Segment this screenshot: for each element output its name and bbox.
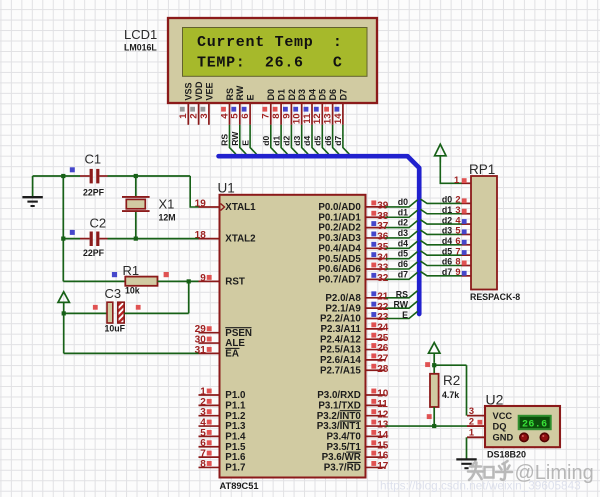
svg-text:P1.5: P1.5 [225, 442, 246, 453]
svg-text:D4: D4 [307, 89, 317, 101]
svg-text:21: 21 [377, 291, 389, 302]
svg-text:P2.4/A12: P2.4/A12 [320, 334, 361, 345]
svg-text:P1.7: P1.7 [225, 463, 246, 474]
svg-text:C2: C2 [90, 216, 107, 231]
svg-text:23: 23 [377, 312, 389, 323]
svg-text:DQ: DQ [493, 421, 507, 431]
svg-text:2: 2 [469, 416, 474, 426]
svg-text:R1: R1 [123, 263, 140, 278]
svg-text:P1.1: P1.1 [225, 400, 246, 411]
svg-text:25: 25 [377, 333, 389, 344]
svg-text:TEMP: 26.6 C: TEMP: 26.6 C [197, 54, 343, 71]
svg-text:P2.2/A10: P2.2/A10 [320, 314, 361, 325]
svg-text:d7: d7 [333, 136, 343, 146]
svg-text:RESPACK-8: RESPACK-8 [470, 292, 520, 302]
svg-text:RW: RW [394, 300, 409, 310]
svg-text:d4: d4 [398, 238, 408, 248]
svg-text:P2.7/A15: P2.7/A15 [320, 365, 361, 376]
svg-text:Current Temp :: Current Temp : [197, 34, 343, 51]
svg-text:32: 32 [377, 273, 389, 284]
svg-text:P2.6/A14: P2.6/A14 [320, 355, 361, 366]
svg-text:P0.1/AD1: P0.1/AD1 [318, 212, 361, 223]
svg-text:E: E [240, 140, 250, 146]
svg-text:28: 28 [377, 364, 389, 375]
svg-text:XTAL1: XTAL1 [225, 202, 256, 213]
svg-text:d6: d6 [398, 259, 408, 269]
svg-text:d3: d3 [292, 136, 302, 146]
svg-text:d0: d0 [398, 197, 408, 207]
svg-text:d1: d1 [271, 136, 281, 146]
svg-text:d0: d0 [261, 136, 271, 146]
svg-text:13: 13 [377, 420, 389, 431]
svg-text:P0.7/AD7: P0.7/AD7 [318, 274, 361, 285]
svg-text:27: 27 [377, 354, 389, 365]
svg-text:29: 29 [195, 324, 207, 335]
svg-text:10k: 10k [125, 285, 140, 295]
svg-text:D2: D2 [287, 89, 297, 101]
svg-text:4: 4 [200, 417, 206, 428]
svg-text:RW: RW [230, 131, 240, 146]
svg-text:P0.4/AD4: P0.4/AD4 [318, 243, 361, 254]
svg-text:38: 38 [377, 211, 389, 222]
svg-text:3: 3 [199, 113, 210, 118]
svg-text:E: E [246, 94, 256, 100]
svg-text:39: 39 [377, 201, 389, 212]
svg-text:RS: RS [225, 88, 235, 101]
svg-text:12: 12 [377, 409, 389, 420]
svg-text:P3.2/INT0: P3.2/INT0 [317, 411, 362, 422]
svg-text:P1.6: P1.6 [225, 452, 246, 463]
svg-text:12M: 12M [159, 213, 176, 223]
svg-text:34: 34 [377, 252, 389, 263]
svg-text:RS: RS [396, 289, 408, 299]
svg-text:P1.2: P1.2 [225, 411, 246, 422]
svg-text:36: 36 [377, 232, 389, 243]
svg-text:U1: U1 [218, 181, 235, 196]
svg-text:d1: d1 [398, 207, 408, 217]
svg-text:P2.1/A9: P2.1/A9 [325, 303, 361, 314]
svg-text:VEE: VEE [204, 82, 214, 100]
svg-text:24: 24 [377, 322, 389, 333]
svg-text:4.7k: 4.7k [442, 390, 459, 400]
svg-text:RP1: RP1 [469, 162, 495, 177]
svg-text:d5: d5 [313, 136, 323, 146]
svg-text:P0.5/AD5: P0.5/AD5 [318, 254, 361, 265]
svg-text:1: 1 [454, 175, 459, 185]
svg-text:d4: d4 [302, 136, 312, 146]
svg-text:P2.0/A8: P2.0/A8 [325, 293, 361, 304]
svg-text:7: 7 [200, 449, 206, 460]
svg-text:P1.0: P1.0 [225, 390, 246, 401]
svg-text:https://blog.csdn.net/weixin_3: https://blog.csdn.net/weixin_39605843 [380, 479, 581, 493]
svg-text:P2.3/A11: P2.3/A11 [320, 324, 361, 335]
svg-text:P0.6/AD6: P0.6/AD6 [318, 264, 361, 275]
svg-text:6: 6 [200, 438, 206, 449]
svg-text:LCD1: LCD1 [124, 27, 157, 42]
svg-text:37: 37 [377, 221, 389, 232]
svg-text:P3.1/TXD: P3.1/TXD [318, 400, 360, 411]
svg-text:AT89C51: AT89C51 [220, 481, 259, 491]
svg-text:17: 17 [377, 461, 389, 472]
svg-text:22PF: 22PF [83, 188, 105, 198]
svg-text:d3: d3 [398, 228, 408, 238]
svg-text:8: 8 [200, 459, 206, 470]
svg-text:VDD: VDD [194, 81, 204, 101]
svg-text:X1: X1 [159, 197, 175, 212]
svg-text:1: 1 [469, 428, 474, 438]
svg-text:P3.3/INT1: P3.3/INT1 [317, 421, 362, 432]
svg-text:14: 14 [333, 113, 344, 124]
svg-text:5: 5 [200, 428, 206, 439]
svg-text:33: 33 [377, 263, 389, 274]
svg-text:D5: D5 [318, 89, 328, 101]
svg-text:P3.5/T1: P3.5/T1 [326, 442, 361, 453]
svg-text:26: 26 [377, 343, 389, 354]
svg-text:RST: RST [225, 277, 245, 288]
svg-text:2: 2 [200, 397, 206, 408]
svg-text:D3: D3 [297, 89, 307, 101]
svg-text:C1: C1 [85, 152, 102, 167]
svg-text:D7: D7 [338, 89, 348, 101]
svg-text:R2: R2 [443, 373, 460, 388]
svg-text:RS: RS [220, 134, 230, 146]
svg-text:XTAL2: XTAL2 [225, 234, 256, 245]
svg-text:D6: D6 [328, 89, 338, 101]
svg-text:VCC: VCC [493, 411, 513, 421]
svg-text:D1: D1 [277, 89, 287, 101]
svg-text:3: 3 [200, 407, 206, 418]
svg-text:1: 1 [200, 386, 206, 397]
svg-text:d7: d7 [398, 269, 408, 279]
svg-text:15: 15 [377, 440, 389, 451]
svg-text:d6: d6 [323, 136, 333, 146]
svg-text:22: 22 [377, 302, 389, 313]
svg-text:26.6: 26.6 [522, 419, 548, 430]
svg-text:P3.4/T0: P3.4/T0 [326, 432, 361, 443]
svg-text:P3.7/RD: P3.7/RD [324, 463, 361, 474]
svg-text:30: 30 [195, 334, 207, 345]
svg-text:10uF: 10uF [105, 324, 126, 334]
svg-text:EA: EA [225, 349, 239, 360]
svg-text:P1.4: P1.4 [225, 432, 246, 443]
svg-text:DS18B20: DS18B20 [487, 450, 526, 460]
svg-text:d5: d5 [398, 249, 408, 259]
svg-text:35: 35 [377, 242, 389, 253]
svg-text:14: 14 [377, 430, 389, 441]
svg-text:D0: D0 [266, 89, 276, 101]
svg-text:3: 3 [469, 406, 474, 416]
svg-text:P3.0/RXD: P3.0/RXD [317, 390, 361, 401]
svg-text:22PF: 22PF [83, 248, 105, 258]
svg-text:P0.2/AD2: P0.2/AD2 [318, 223, 361, 234]
svg-text:9: 9 [200, 273, 206, 284]
svg-text:VSS: VSS [184, 82, 194, 100]
svg-text:P1.3: P1.3 [225, 421, 246, 432]
svg-text:6: 6 [240, 113, 251, 118]
svg-text:C3: C3 [105, 286, 122, 301]
svg-text:PSEN: PSEN [225, 328, 252, 339]
svg-text:LM016L: LM016L [124, 43, 157, 53]
svg-text:d2: d2 [398, 218, 408, 228]
svg-text:d2: d2 [282, 136, 292, 146]
svg-text:P0.0/AD0: P0.0/AD0 [318, 202, 361, 213]
svg-text:P3.6/WR: P3.6/WR [322, 452, 361, 463]
svg-text:10: 10 [377, 389, 389, 400]
svg-text:P2.5/A13: P2.5/A13 [320, 345, 361, 356]
svg-text:E: E [402, 310, 408, 320]
svg-text:11: 11 [377, 399, 388, 410]
svg-text:P0.3/AD3: P0.3/AD3 [318, 233, 361, 244]
svg-text:RW: RW [235, 85, 245, 100]
svg-text:ALE: ALE [225, 338, 245, 349]
svg-text:16: 16 [377, 451, 389, 462]
svg-text:GND: GND [493, 433, 514, 443]
